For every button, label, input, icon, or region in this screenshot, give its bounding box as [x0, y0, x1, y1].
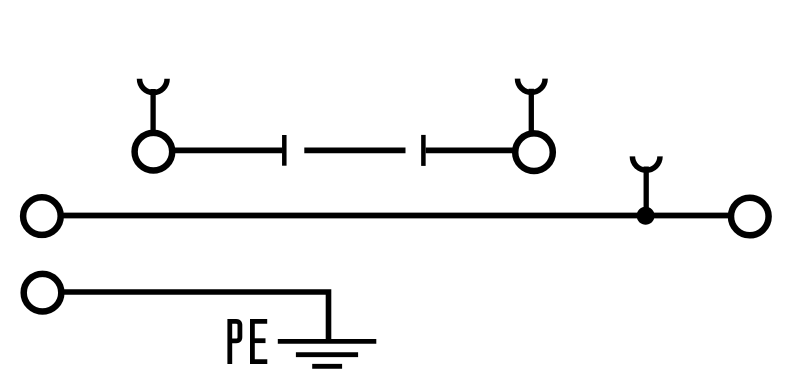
disconnect bar 2 — [421, 135, 426, 166]
test tap fork above junction — [632, 156, 660, 215]
ground symbol line 2 — [296, 352, 358, 357]
wire: disconnect bar 2 to terminal 2 — [426, 147, 514, 153]
ground symbol line 1 — [278, 339, 377, 344]
test tap fork above terminal 2 — [518, 79, 546, 132]
wire: middle bus — [61, 213, 730, 219]
label PE : letter E — [250, 319, 267, 364]
terminal circle 5 (bottom-left clamp) — [24, 274, 62, 312]
terminal circle 3 (middle-left clamp) — [23, 197, 61, 235]
label PE : letter P — [230, 319, 240, 364]
test tap fork above terminal 1 — [140, 79, 168, 131]
terminal circle 2 (top-right clamp) — [515, 133, 553, 171]
disconnect bar 1 — [282, 135, 287, 166]
junction dot — [637, 207, 655, 225]
wire: PE terminal to ground (with corner) — [61, 292, 329, 341]
removable link segment — [304, 147, 405, 153]
ground symbol line 3 — [312, 364, 342, 369]
terminal circle 1 (top-left clamp) — [135, 133, 173, 171]
wire: terminal 1 to disconnect bar 1 — [172, 147, 282, 153]
terminal circle 4 (middle-right clamp) — [731, 198, 769, 236]
